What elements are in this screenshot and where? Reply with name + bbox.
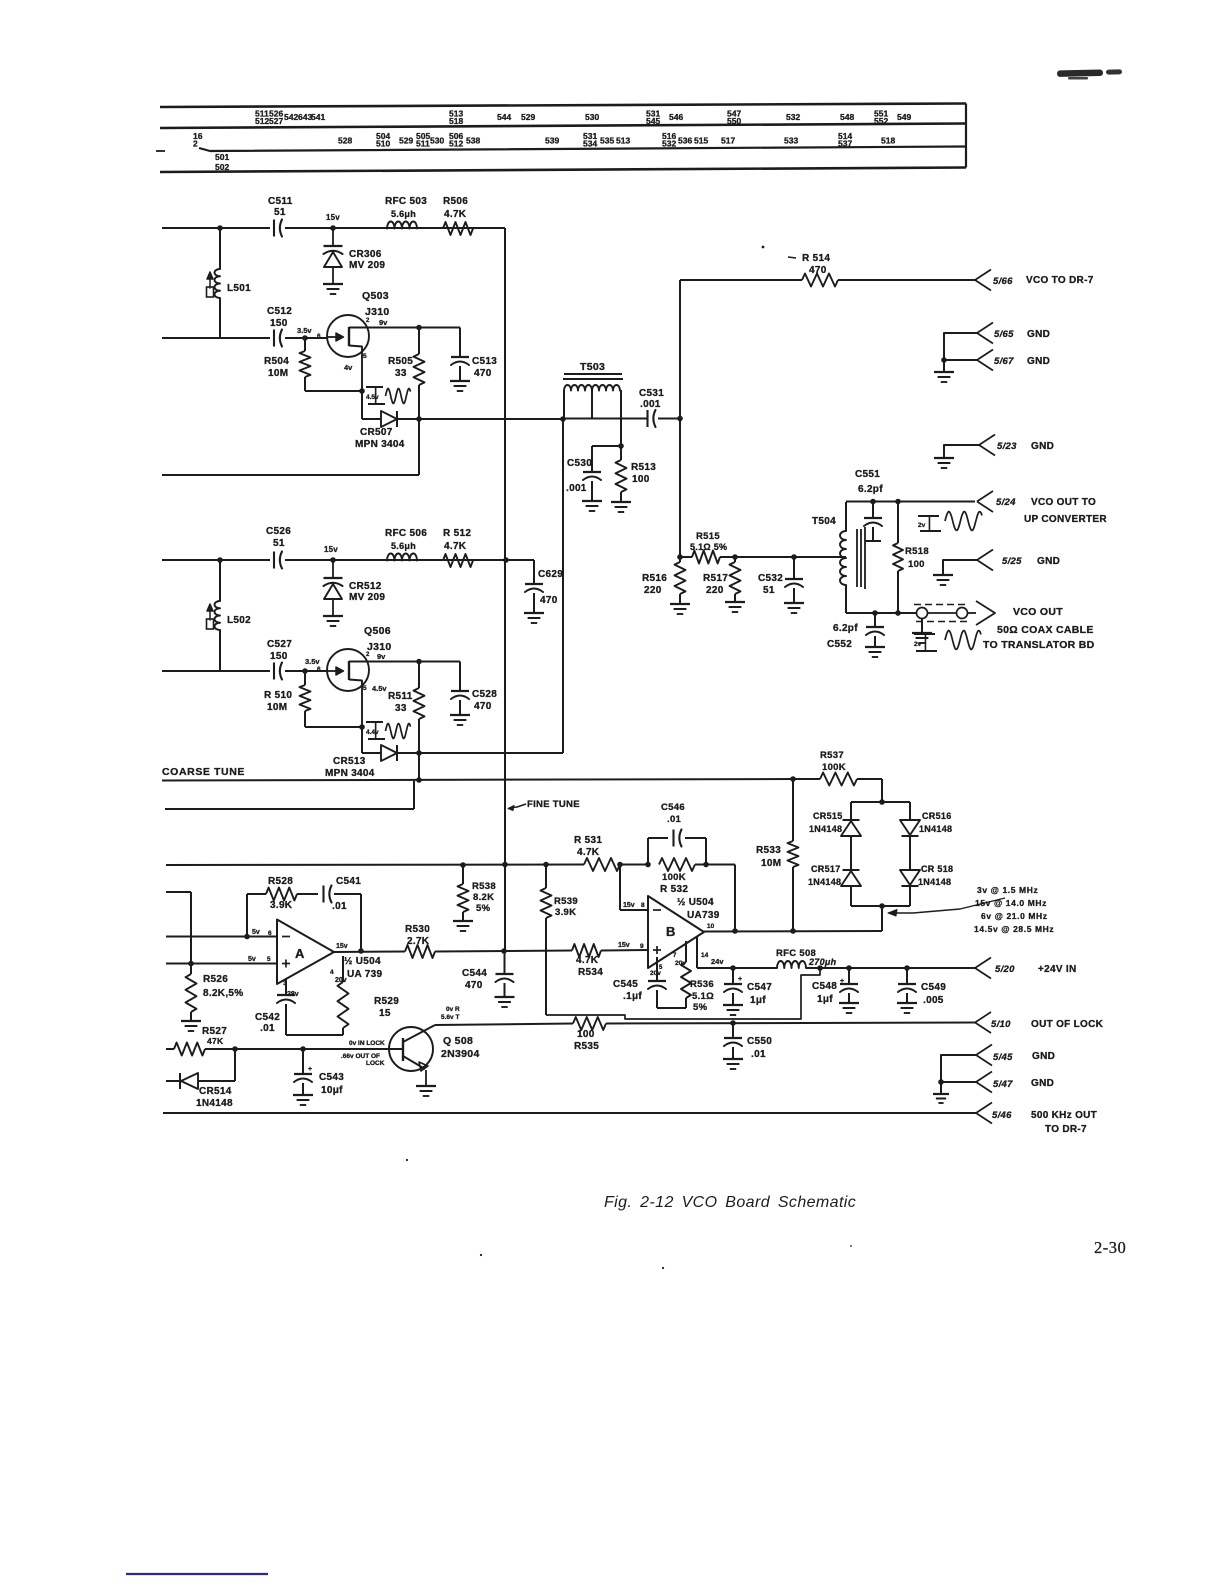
connector 5/47 [976, 1072, 992, 1093]
wire R531 to R532 [620, 864, 648, 866]
svg-text:C532: C532 [758, 573, 783, 584]
svg-text:9v: 9v [377, 652, 386, 661]
svg-text:470: 470 [809, 265, 827, 276]
label C528 [472, 689, 497, 712]
label C531 [639, 388, 664, 410]
label R535 [574, 1029, 599, 1052]
wire osc1 feedback drop [418, 419, 420, 475]
svg-text:Q506: Q506 [364, 625, 391, 637]
label C548 [812, 981, 837, 1005]
label 5/25 [1002, 556, 1060, 567]
svg-text:529: 529 [521, 112, 535, 122]
wire osc1 top rail [162, 227, 505, 229]
svg-text:4.7K: 4.7K [577, 847, 600, 858]
node A output junction [358, 948, 364, 954]
label 5/45 [993, 1051, 1055, 1063]
node R516 junction [677, 554, 683, 560]
label COARSE TUNE [162, 766, 245, 778]
capacitor C543 [293, 1049, 313, 1105]
label C545 [613, 979, 642, 1002]
svg-text:C552: C552 [827, 639, 852, 650]
label 15v osc1 [326, 213, 340, 222]
svg-text:TO TRANSLATOR BD: TO TRANSLATOR BD [983, 639, 1095, 651]
label C629 [538, 569, 563, 606]
svg-text:0v IN LOCK: 0v IN LOCK [349, 1040, 385, 1047]
capacitor C546 [648, 830, 706, 865]
node R528 junction [244, 934, 250, 940]
svg-text:15v: 15v [623, 902, 635, 909]
capacitor C542 [277, 979, 295, 1035]
resistor R535 [573, 1017, 606, 1030]
svg-text:LOCK: LOCK [366, 1060, 385, 1067]
smudged header text [1057, 69, 1122, 79]
svg-text:C513: C513 [472, 356, 497, 367]
wire B minus drop [620, 865, 648, 911]
wire table second rule [160, 124, 966, 129]
svg-text:C530: C530 [567, 458, 592, 469]
svg-text:R535: R535 [574, 1041, 599, 1052]
wire T503 node [563, 418, 648, 420]
svg-text:R505: R505 [388, 356, 413, 367]
label C511 [268, 196, 293, 218]
node CR514 junction [232, 1046, 238, 1052]
resistor R517 [725, 557, 745, 612]
svg-text:R526: R526 [203, 974, 228, 985]
node main rail T503 junction [677, 416, 683, 422]
svg-text:MV 209: MV 209 [349, 592, 385, 603]
svg-text:+24V IN: +24V IN [1038, 964, 1077, 975]
label 3.5v Q503 [297, 326, 321, 340]
svg-text:.01: .01 [751, 1049, 766, 1060]
svg-text:6v @ 21.0 MHz: 6v @ 21.0 MHz [981, 911, 1048, 921]
capacitor C547 [723, 968, 743, 1015]
wire R527 to Q508 [235, 1048, 303, 1050]
svg-text:R539: R539 [554, 896, 578, 907]
svg-text:10μf: 10μf [321, 1085, 343, 1096]
svg-text:R537: R537 [820, 750, 844, 761]
svg-text:10M: 10M [761, 858, 781, 869]
svg-text:518: 518 [449, 116, 463, 126]
svg-text:100K: 100K [822, 762, 846, 773]
svg-text:.001: .001 [566, 483, 587, 494]
wire 5/25 stub [943, 560, 977, 575]
svg-text:R518: R518 [905, 546, 929, 557]
node R505 bottom junction [416, 416, 422, 422]
svg-text:10M: 10M [267, 702, 287, 713]
node bridge bottom junction [879, 903, 885, 909]
svg-text:MV 209: MV 209 [349, 260, 385, 271]
label R526 [203, 974, 243, 999]
label 15v A out [336, 943, 348, 950]
diode CR306 varactor [323, 228, 343, 294]
label T504 [812, 516, 836, 527]
svg-text:513: 513 [616, 136, 630, 146]
svg-text:L501: L501 [227, 283, 251, 294]
label frequency table [974, 885, 1054, 934]
svg-text:532: 532 [786, 112, 800, 122]
wire 5/46 rail [163, 1112, 976, 1114]
label R504 [264, 356, 289, 379]
svg-text:R517: R517 [703, 573, 728, 584]
inductor RFC503 [387, 222, 417, 229]
svg-text:UA739: UA739 [687, 910, 720, 921]
svg-text:R515: R515 [696, 531, 720, 542]
node opamp B minus junction [617, 862, 623, 868]
resistor R510 [300, 671, 363, 727]
node Q503 source junction [359, 388, 365, 394]
svg-text:5v: 5v [248, 956, 256, 963]
resistor R539 [541, 865, 552, 1016]
svg-text:9v: 9v [379, 318, 388, 327]
label CR514 [196, 1086, 233, 1109]
diode CR516 [900, 820, 920, 836]
svg-text:100: 100 [632, 474, 650, 485]
node osc1 L501 top junction [217, 225, 223, 231]
label R538 [472, 881, 496, 914]
label R537 [820, 750, 846, 773]
svg-text:A: A [295, 946, 305, 961]
svg-text:515: 515 [694, 136, 708, 146]
svg-text:4.5v: 4.5v [372, 684, 387, 693]
ground coax shield [912, 619, 932, 644]
svg-text:1μf: 1μf [817, 994, 833, 1005]
svg-text:5/20: 5/20 [995, 964, 1015, 975]
svg-text:C542: C542 [255, 1012, 280, 1023]
node 5/67 junction [941, 357, 947, 363]
svg-text:.005: .005 [923, 995, 944, 1006]
label half U504 B [677, 897, 720, 921]
svg-text:50Ω COAX CABLE: 50Ω COAX CABLE [997, 624, 1094, 636]
wire A minus input [166, 936, 276, 938]
label 5/67 [994, 356, 1050, 367]
svg-text:530: 530 [585, 112, 599, 122]
svg-text:GND: GND [1027, 329, 1050, 340]
resistor R515 [680, 551, 735, 564]
svg-text:Fig. 2-12 VCO Board Schemat: Fig. 2-12 VCO Board Schematic [604, 1194, 856, 1211]
node C549 junction [904, 965, 910, 971]
svg-text:2v: 2v [914, 641, 922, 648]
label RFC503 [385, 196, 427, 219]
label CR516 [919, 811, 952, 834]
svg-text:15v: 15v [618, 942, 630, 949]
wire A plus bias stub [166, 892, 191, 964]
node table row 1 reference numbers [255, 109, 911, 127]
svg-text:R528: R528 [268, 876, 293, 887]
capacitor C512 [274, 330, 282, 347]
svg-text:541: 541 [311, 112, 325, 122]
svg-text:5.6v T: 5.6v T [441, 1014, 459, 1021]
svg-text:5/10: 5/10 [991, 1019, 1011, 1030]
connector 5/20 [975, 958, 991, 979]
svg-text:FINE TUNE: FINE TUNE [527, 799, 580, 810]
resistor R534 [572, 944, 648, 957]
svg-text:5%: 5% [693, 1002, 708, 1013]
label CR517 [808, 864, 841, 887]
svg-text:C528: C528 [472, 689, 497, 700]
connector 5/25 [977, 550, 993, 571]
label 5 pin Q503 [344, 353, 367, 372]
svg-text:VCO OUT TO: VCO OUT TO [1031, 497, 1096, 508]
svg-text:2: 2 [366, 318, 370, 324]
node R539 return junction [817, 965, 823, 971]
svg-text:5.1Ω 5%: 5.1Ω 5% [690, 542, 727, 552]
node L501 tuning arrow [207, 272, 214, 297]
transistor Q506 [327, 649, 369, 727]
svg-text:15v: 15v [324, 545, 338, 554]
capacitor C532 [784, 557, 804, 613]
label 5/46 [992, 1110, 1097, 1135]
svg-text:550: 550 [727, 116, 741, 126]
svg-text:542: 542 [284, 112, 298, 122]
wire A output [334, 951, 405, 954]
label Q508 [441, 1035, 480, 1060]
svg-text:CR512: CR512 [349, 581, 382, 592]
wire R515 to C532 [735, 556, 846, 558]
node R533 top junction [790, 776, 796, 782]
wire table bottom rule [160, 168, 966, 173]
svg-text:532: 532 [662, 139, 676, 149]
node stray specks [406, 1159, 852, 1269]
svg-text:47K: 47K [207, 1036, 224, 1046]
wire osc2 gate rail [162, 670, 327, 672]
svg-text:5: 5 [363, 353, 367, 360]
node R518 top junction [895, 499, 901, 505]
svg-text:CR513: CR513 [333, 756, 366, 767]
node osc2 gate junction [302, 668, 308, 674]
node coax cable symbol [914, 605, 976, 622]
svg-text:5/25: 5/25 [1002, 556, 1022, 567]
ground 5/65 5/67 [934, 360, 954, 382]
label C546 [661, 802, 685, 825]
node R533 bottom junction [790, 928, 796, 934]
svg-text:5: 5 [267, 956, 271, 963]
svg-text:½ U504: ½ U504 [344, 956, 381, 967]
label R512 [443, 528, 471, 552]
svg-text:4: 4 [330, 969, 334, 976]
node C547 junction [730, 965, 736, 971]
diode CR513 [381, 745, 397, 761]
svg-text:470: 470 [474, 368, 492, 379]
op-amp U504 section B [648, 896, 704, 968]
resistor R505 [414, 328, 425, 420]
wire CR513 to T503 leg [397, 752, 563, 754]
resistor R504 [300, 338, 363, 391]
svg-text:B: B [666, 924, 676, 939]
svg-text:R536: R536 [690, 979, 714, 990]
diode CR518 [900, 870, 920, 886]
svg-text:GND: GND [1031, 1078, 1054, 1089]
node table row 3 reference numbers [215, 152, 229, 172]
svg-text:VCO OUT: VCO OUT [1013, 606, 1063, 618]
connector 5/65 [977, 323, 993, 344]
connector 5/10 [975, 1012, 991, 1033]
capacitor C531 [648, 410, 656, 427]
svg-text:2: 2 [193, 139, 198, 149]
label T503 [580, 361, 605, 373]
svg-text:4.4v: 4.4v [366, 729, 379, 736]
label R529 [374, 996, 399, 1019]
resistor R536 [657, 941, 691, 1008]
svg-text:C551: C551 [855, 469, 880, 480]
capacitor C528 [450, 662, 470, 726]
svg-text:538: 538 [466, 136, 480, 146]
svg-text:8: 8 [641, 902, 645, 909]
capacitor C530 [582, 472, 602, 511]
node bridge top junction [879, 799, 885, 805]
ground Q508 emitter [416, 1086, 436, 1096]
wire to 5/66 [838, 279, 975, 281]
capacitor C551 [864, 502, 882, 542]
wire Q508 collector line [435, 1024, 573, 1026]
wire Q503 source to CR507 [362, 391, 381, 419]
ground 5/45 5/47 [933, 1082, 949, 1103]
svg-text:R506: R506 [443, 196, 468, 207]
connector 5/24 [977, 491, 993, 512]
svg-text:R538: R538 [472, 881, 496, 892]
svg-text:CR517: CR517 [811, 864, 841, 874]
svg-text:220: 220 [706, 585, 724, 596]
svg-text:R513: R513 [631, 462, 656, 473]
wire T504 top out [846, 501, 975, 503]
capacitor C545 [648, 957, 666, 1008]
svg-text:529: 529 [399, 136, 413, 146]
svg-text:1N4148: 1N4148 [918, 877, 951, 887]
resistor R538 [453, 865, 473, 931]
wire osc1 to fine-tune rail [504, 228, 506, 560]
svg-text:6.2pf: 6.2pf [858, 484, 883, 495]
svg-text:R534: R534 [578, 967, 603, 978]
wire osc1 lower rail [162, 474, 419, 476]
svg-text:5v: 5v [252, 929, 260, 936]
svg-text:517: 517 [721, 136, 735, 146]
svg-text:150: 150 [270, 651, 288, 662]
node T503 left junction [560, 416, 566, 422]
label FINE TUNE [508, 799, 580, 811]
label C552 [827, 623, 858, 650]
svg-text:+: + [840, 978, 844, 985]
inductor RFC508 [777, 961, 806, 968]
svg-text:510: 510 [376, 139, 390, 149]
node Q506 drain junction [416, 659, 422, 665]
svg-text:C526: C526 [266, 526, 291, 537]
node 2v waveform annotation top [918, 512, 982, 532]
label C526 [266, 526, 291, 549]
node rail junction fine tune [502, 862, 508, 868]
label C547 [747, 982, 772, 1006]
svg-text:5%: 5% [476, 903, 491, 914]
label 0v in lock [341, 1040, 385, 1067]
label 5v pin5 [248, 956, 271, 963]
label R517 [703, 573, 728, 596]
wire fine tune rail lower [504, 560, 506, 864]
svg-text:512: 512 [449, 139, 463, 149]
svg-text:502: 502 [215, 162, 229, 172]
node osc1 varactor junction [330, 225, 336, 231]
svg-text:C545: C545 [613, 979, 638, 990]
capacitor C629 [506, 560, 544, 623]
inductor L502 [215, 560, 221, 671]
wire table left tick [156, 150, 165, 152]
label R527 [202, 1026, 227, 1046]
svg-text:6.2pf: 6.2pf [833, 623, 858, 634]
label 5/65 [994, 329, 1050, 340]
capacitor C513 [450, 328, 470, 392]
node C552 junction [872, 610, 878, 616]
node R526 junction [188, 961, 194, 967]
label 3.5v Q506 [305, 657, 321, 673]
svg-text:J310: J310 [365, 306, 390, 318]
svg-text:7: 7 [673, 953, 677, 959]
wire T503 left leg to osc2 [562, 419, 564, 753]
svg-text:OUT OF LOCK: OUT OF LOCK [1031, 1019, 1104, 1030]
svg-text:544: 544 [497, 112, 511, 122]
resistor R512 [443, 554, 473, 567]
svg-text:CR516: CR516 [922, 811, 952, 821]
wire CR507 to T503 [397, 418, 563, 420]
wire bridge top bar [851, 801, 910, 803]
svg-text:+: + [308, 1066, 312, 1073]
svg-text:15: 15 [379, 1008, 391, 1019]
svg-text:51: 51 [274, 207, 286, 218]
label C542 [255, 1012, 280, 1034]
label 5/24 [996, 497, 1107, 525]
transformer T503 [563, 374, 623, 446]
svg-text:220: 220 [644, 585, 662, 596]
svg-text:5/67: 5/67 [994, 356, 1014, 367]
svg-text:1N4148: 1N4148 [919, 824, 952, 834]
label pin3 28v [283, 980, 299, 998]
wire C541 to output [334, 894, 361, 951]
svg-text:5/45: 5/45 [993, 1052, 1013, 1063]
svg-text:UA 739: UA 739 [347, 969, 382, 980]
wire B pin14 supply [697, 937, 733, 968]
label 5/47 [993, 1078, 1054, 1090]
svg-text:GND: GND [1037, 556, 1060, 567]
svg-text:2-30: 2-30 [1094, 1238, 1126, 1257]
wire osc1 gate rail [162, 337, 327, 339]
node C544 junction [501, 948, 507, 954]
label C512 [267, 306, 292, 329]
svg-text:14: 14 [701, 952, 709, 959]
node osc2 varactor junction [330, 557, 336, 563]
node R517 junction [732, 554, 738, 560]
svg-text:MPN 3404: MPN 3404 [355, 439, 405, 450]
wire 5/45 stub [941, 1055, 976, 1082]
wire osc2 top rail [162, 559, 506, 561]
svg-text:5/23: 5/23 [997, 441, 1017, 452]
connector 5/46 [976, 1103, 992, 1124]
capacitor C544 [495, 974, 515, 1007]
svg-text:CR306: CR306 [349, 249, 382, 260]
node 2v waveform annotation bottom [914, 631, 981, 652]
svg-text:3.5v: 3.5v [305, 657, 320, 666]
svg-text:C527: C527 [267, 639, 292, 650]
svg-text:CR515: CR515 [813, 811, 843, 821]
svg-text:5/47: 5/47 [993, 1079, 1013, 1090]
label C513 [472, 356, 497, 379]
label R533 [756, 845, 781, 869]
diode CR507 [381, 411, 397, 427]
label 9v Q506 [366, 652, 386, 661]
capacitor C549 [897, 968, 917, 1013]
wire RFC508 to 5/20 [806, 967, 975, 969]
svg-text:470: 470 [474, 701, 492, 712]
svg-text:R 510: R 510 [264, 690, 292, 701]
label 15v osc2 [324, 545, 338, 554]
svg-text:20v: 20v [650, 970, 661, 977]
svg-text:537: 537 [838, 139, 852, 149]
wire R535 to 5/10 [606, 1023, 975, 1024]
